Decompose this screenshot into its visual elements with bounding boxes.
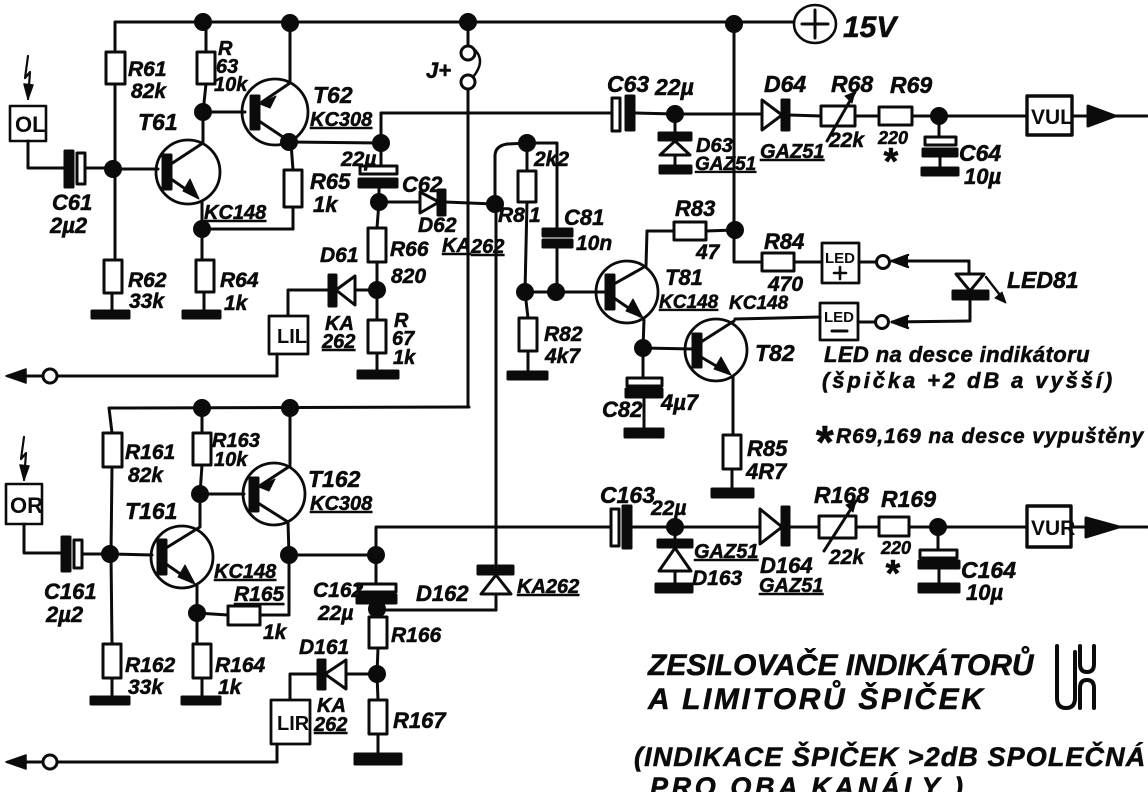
svg-text:T161: T161 [125, 498, 177, 524]
resistor R162 [103, 644, 176, 699]
node R166/R167/D161 [370, 667, 385, 682]
svg-text:R162: R162 [125, 654, 176, 677]
node above C62 [374, 113, 389, 166]
svg-text:22µ: 22µ [340, 148, 376, 171]
svg-text:2k2: 2k2 [533, 148, 569, 171]
resistor R83 [647, 196, 735, 264]
ground below R64 [183, 311, 220, 318]
capacitor C64 10µ [923, 116, 1001, 189]
note LED na desce [822, 342, 1115, 393]
svg-text:C161: C161 [44, 579, 97, 604]
diode D63 GAZ51 [659, 114, 756, 175]
wire limiter line left lower with terminal [6, 755, 277, 769]
node base T81 left [518, 285, 609, 300]
svg-text:262: 262 [321, 331, 355, 353]
svg-text:82k: 82k [128, 464, 164, 487]
svg-text:ZESILOVAČE INDIKÁTORŮ: ZESILOVAČE INDIKÁTORŮ [647, 646, 1035, 682]
node C163 / D163 [668, 520, 683, 535]
svg-text:2µ2: 2µ2 [45, 602, 84, 627]
node base T161 / C161 junction [103, 547, 153, 645]
connector box LED- [820, 303, 876, 340]
connector box LED+ [822, 243, 876, 283]
svg-text:R69: R69 [890, 72, 932, 98]
svg-text:1k: 1k [224, 292, 249, 315]
resistor R65 [284, 143, 351, 229]
svg-text:1k: 1k [263, 621, 288, 644]
svg-text:4R7: 4R7 [745, 459, 788, 484]
jumper J+ [426, 22, 480, 406]
diode D163 GAZ51 [658, 527, 758, 590]
svg-text:R169: R169 [881, 486, 936, 512]
ground below D63 [660, 166, 691, 173]
resistor R67 [368, 290, 416, 371]
terminal upper LED [877, 255, 970, 269]
wire limiter line left with terminal [6, 369, 277, 383]
node T162 collector [282, 522, 377, 563]
svg-text:10k: 10k [214, 449, 248, 471]
svg-text:D162: D162 [416, 581, 469, 606]
svg-text:C61: C61 [52, 190, 92, 215]
svg-text:KC308: KC308 [310, 109, 373, 131]
node R81 / D62 / D162 [488, 143, 528, 212]
svg-text:*: * [814, 416, 834, 468]
node R66/R67/D61 [370, 283, 385, 298]
svg-text:A LIMITORŮ ŠPIČEK: A LIMITORŮ ŠPIČEK [647, 680, 986, 716]
svg-text:1k: 1k [313, 192, 339, 217]
svg-text:*: * [882, 141, 899, 183]
ground below C82 [625, 429, 663, 437]
resistor R61 [106, 52, 167, 160]
svg-text:22µ: 22µ [654, 74, 694, 100]
node top rail to R63 [196, 15, 211, 30]
svg-text:15V: 15V [843, 11, 899, 44]
node top rail to T62 emitter [283, 16, 298, 31]
svg-text:10n: 10n [576, 232, 612, 255]
svg-text:C163: C163 [600, 482, 655, 508]
resistor R81 2k2 [498, 143, 569, 292]
output box VUL [939, 96, 1073, 135]
terminal lower LED [876, 316, 970, 329]
svg-text:R84: R84 [764, 229, 804, 254]
svg-text:R65: R65 [310, 169, 351, 194]
node below C162 [370, 602, 497, 617]
svg-text:4µ7: 4µ7 [660, 390, 700, 415]
node top rail to R83/R84 branch [727, 17, 742, 32]
diode LED81 [953, 261, 1079, 321]
svg-text:R64: R64 [220, 269, 259, 292]
svg-text:(špička +2 dB a vyšší): (špička +2 dB a vyšší) [822, 368, 1115, 393]
svg-text:T62: T62 [313, 82, 353, 108]
svg-text:D62: D62 [418, 214, 457, 237]
svg-text:22k: 22k [828, 546, 865, 569]
node T61 collector [196, 105, 246, 120]
ground below R167 [355, 754, 401, 764]
resistor R167 [369, 674, 447, 754]
transistor T161 [125, 494, 277, 613]
node R169 / C164 [931, 520, 946, 535]
resistor R68 22k variable [821, 71, 879, 152]
node C63 / D63 [668, 107, 683, 122]
svg-text:R164: R164 [215, 654, 266, 677]
resistor R69 [877, 72, 939, 183]
svg-text:22k: 22k [828, 129, 865, 152]
ground below R162 [91, 697, 129, 704]
svg-text:GAZ51: GAZ51 [694, 541, 758, 563]
diode D162 KA262 [416, 204, 579, 610]
svg-text:*: * [884, 553, 901, 595]
resistor R163 [193, 408, 260, 494]
resistor R66 [368, 202, 429, 290]
node T62 collector [282, 135, 382, 150]
svg-text:R68: R68 [831, 71, 873, 97]
svg-text:LED na desce indikátoru: LED na desce indikátoru [824, 342, 1090, 367]
ground below R67 [358, 371, 398, 378]
svg-text:C63: C63 [607, 71, 649, 97]
svg-text:22µ: 22µ [650, 497, 686, 520]
svg-text:LED81: LED81 [1007, 267, 1079, 293]
svg-text:10µ: 10µ [964, 164, 1001, 189]
svg-text:R166: R166 [391, 624, 442, 647]
svg-text:C82: C82 [602, 397, 643, 422]
svg-text:820: 820 [391, 265, 426, 288]
svg-text:R165: R165 [234, 583, 285, 606]
svg-text:GAZ51: GAZ51 [695, 154, 756, 175]
svg-text:82k: 82k [131, 80, 167, 103]
svg-text:1k: 1k [393, 347, 416, 369]
svg-text:D61: D61 [320, 244, 359, 267]
svg-text:47: 47 [695, 241, 721, 264]
svg-text:LIL: LIL [277, 326, 307, 348]
svg-text:J+: J+ [426, 58, 451, 83]
svg-text:1k: 1k [218, 676, 243, 699]
resistor R62 [104, 260, 167, 313]
resistor R164 [193, 613, 266, 699]
node below C62 [372, 195, 421, 210]
transistor T62 [242, 23, 373, 145]
svg-text:C162: C162 [313, 579, 364, 602]
svg-text:R168: R168 [814, 482, 869, 508]
transistor T162 [243, 408, 373, 525]
wire upper signal line [381, 112, 612, 115]
svg-text:T82: T82 [755, 340, 795, 366]
node base T61 / C61 junction [106, 160, 159, 260]
node above C162 [369, 527, 613, 584]
svg-text:R167: R167 [393, 708, 447, 733]
svg-text:KC308: KC308 [310, 493, 373, 515]
ground below R82 [508, 372, 547, 379]
svg-text:C64: C64 [959, 140, 1001, 166]
diode D62 KA262 [418, 190, 504, 258]
svg-text:R69,169 na desce vypuštěny: R69,169 na desce vypuštěny [836, 425, 1145, 448]
node T161 emitter [190, 606, 205, 621]
resistor R161 [103, 433, 175, 554]
capacitor C82 4µ7 [602, 348, 700, 429]
svg-text:VUL: VUL [1031, 106, 1073, 129]
svg-text:22µ: 22µ [317, 602, 353, 625]
svg-text:R85: R85 [747, 436, 788, 461]
node lower rail to T162 emitter [283, 401, 298, 416]
svg-text:1: 1 [529, 204, 541, 227]
input terminal OR with arrow [6, 437, 62, 553]
diode D161 KA262 [290, 636, 377, 736]
svg-text:10µ: 10µ [966, 580, 1003, 605]
svg-text:262: 262 [313, 714, 347, 736]
transistor T61 [138, 109, 267, 229]
ground below R164 [182, 697, 220, 704]
ground below R85 [712, 489, 753, 497]
diode D64 GAZ51 [675, 71, 824, 163]
capacitor C63 22µ [607, 71, 694, 131]
svg-text:R82: R82 [544, 323, 583, 346]
node T61 emitter [195, 222, 294, 237]
resistor R63 [197, 22, 248, 112]
svg-text:R62: R62 [128, 269, 167, 292]
svg-text:LED: LED [824, 309, 854, 326]
output box VUR [938, 506, 1075, 547]
svg-text:C81: C81 [564, 205, 604, 230]
diode D164 GAZ51 [675, 507, 823, 597]
output arrow VUR [1071, 518, 1147, 537]
svg-text:KC148: KC148 [729, 293, 789, 314]
svg-text:4k7: 4k7 [544, 345, 581, 368]
svg-text:KC148: KC148 [214, 561, 277, 583]
ground below D163 [656, 584, 692, 592]
ground below C64 [922, 168, 958, 175]
diode D61 KA262 [288, 244, 377, 353]
svg-text:OR: OR [10, 493, 43, 518]
svg-text:KC148: KC148 [659, 292, 719, 313]
node lower rail to R163 [195, 401, 210, 416]
svg-text:LIR: LIR [277, 713, 310, 735]
svg-text:GAZ51: GAZ51 [760, 141, 824, 163]
svg-text:D163: D163 [692, 567, 743, 590]
output arrow VUL [1072, 106, 1147, 126]
capacitor C81 10n [543, 205, 612, 292]
transistor T82 [643, 293, 820, 435]
power symbol +15V [794, 5, 899, 44]
resistor R166 [369, 609, 442, 674]
resistor R64 [196, 229, 259, 315]
svg-text:T61: T61 [138, 109, 178, 135]
ground below R62 [92, 311, 129, 318]
svg-text:KC148: KC148 [204, 202, 267, 224]
svg-text:LED: LED [825, 250, 855, 267]
node T81 emitter / T82 base [636, 341, 651, 356]
logo UN [1057, 646, 1094, 708]
svg-text:D64: D64 [764, 71, 806, 97]
svg-text:R161: R161 [125, 441, 175, 464]
svg-text:33k: 33k [128, 676, 164, 699]
node R69 / C64 [932, 109, 947, 124]
capacitor C164 10µ [919, 527, 1016, 605]
capacitor C162 22µ [313, 579, 396, 625]
wire +15V top rail [115, 22, 793, 54]
svg-text:KA262: KA262 [517, 576, 579, 598]
svg-text:33k: 33k [129, 290, 165, 313]
node top of R81 [520, 136, 558, 230]
resistor R82 [519, 292, 583, 372]
svg-text:R66: R66 [390, 238, 429, 261]
note R69,169 vypuštěny [814, 416, 1145, 468]
ground below C164 [919, 584, 959, 592]
resistor R168 22k variable [814, 482, 879, 569]
svg-text:262: 262 [470, 236, 504, 258]
svg-text:10k: 10k [214, 74, 248, 96]
svg-text:PRO OBA KANÁLY ): PRO OBA KANÁLY ) [650, 771, 967, 792]
capacitor C62 22µ [340, 148, 443, 202]
node top rail to J+ [461, 15, 476, 30]
limiter box LIR [271, 700, 310, 762]
svg-text:D161: D161 [299, 636, 349, 659]
capacitor C163 22µ [600, 482, 686, 548]
resistor R169 [879, 486, 938, 595]
svg-text:R61: R61 [128, 58, 167, 81]
svg-text:VUR: VUR [1031, 517, 1075, 540]
transistor T81 [596, 231, 719, 348]
capacitor C61 2µ2 [49, 151, 113, 238]
svg-text:R8: R8 [498, 204, 525, 227]
node T161 collector [193, 487, 245, 502]
svg-text:T81: T81 [665, 265, 703, 290]
svg-text:2µ2: 2µ2 [49, 213, 88, 238]
capacitor C161 2µ2 [44, 537, 108, 627]
svg-text:R83: R83 [675, 196, 715, 221]
wire +15V branch to R84 [728, 24, 763, 262]
resistor R85 [723, 435, 788, 489]
svg-text:(INDIKACE ŠPIČEK >2dB SPOLEČNÁ: (INDIKACE ŠPIČEK >2dB SPOLEČNÁ [634, 741, 1146, 772]
svg-text:GAZ51: GAZ51 [759, 575, 823, 597]
limiter box LIL [269, 316, 308, 376]
svg-text:OL: OL [15, 112, 46, 137]
resistor R84 [762, 229, 822, 296]
wire lower supply rail [109, 407, 469, 433]
input terminal OL with arrow [10, 56, 64, 168]
svg-text:T162: T162 [308, 466, 361, 492]
resistor R165 [197, 555, 289, 644]
